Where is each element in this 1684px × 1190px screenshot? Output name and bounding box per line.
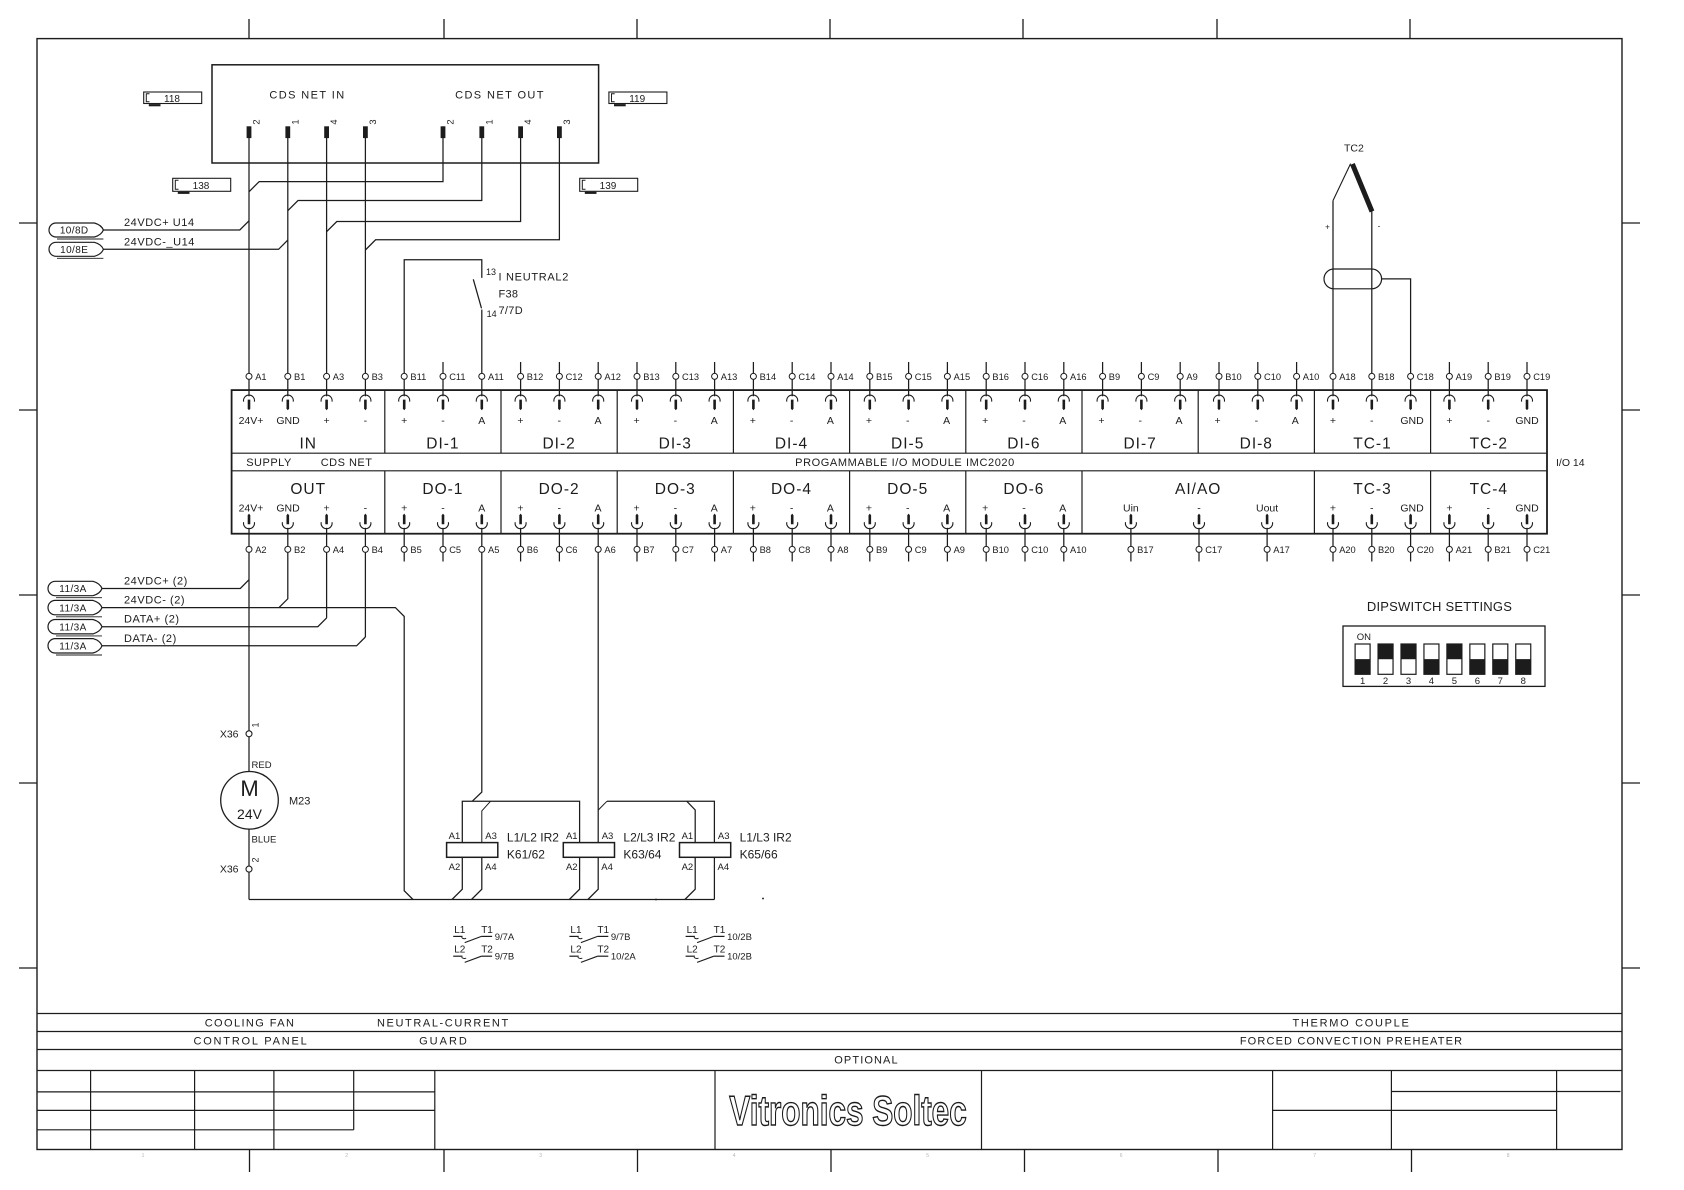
wire A2 to X36-1: [248, 553, 250, 731]
svg-text:+: +: [517, 503, 523, 515]
svg-text:X36: X36: [220, 729, 239, 741]
border tick right 2: [1622, 409, 1640, 411]
module pin C19 (top): [1522, 395, 1533, 410]
contact L2-T2 (10/2B) group 3: [686, 945, 752, 963]
svg-text:2: 2: [1383, 676, 1388, 687]
terminal B3 (top): [362, 372, 383, 396]
module pin C11 (top): [438, 395, 449, 410]
module pin A14 (top): [826, 395, 837, 410]
module pin A21 (bottom): [1444, 514, 1455, 529]
terminal B9 (top): [1100, 362, 1121, 396]
svg-text:GND: GND: [276, 415, 300, 427]
label BLUE: [252, 835, 277, 846]
terminal C15 (top): [906, 362, 932, 396]
module IMC2020 outline: [232, 390, 1547, 534]
svg-text:C9: C9: [915, 545, 927, 555]
terminal B17 (bottom): [1128, 528, 1154, 562]
terminal B21 (bottom): [1485, 528, 1511, 562]
svg-text:A4: A4: [601, 862, 613, 873]
terminal B14 (top): [750, 362, 776, 396]
terminal C17 (bottom): [1196, 528, 1222, 562]
section title DI-8: [1240, 436, 1273, 453]
module pin C14 (top): [787, 395, 798, 410]
svg-text:-: -: [674, 415, 678, 427]
svg-text:B16: B16: [992, 372, 1009, 382]
svg-text:L2: L2: [687, 945, 699, 956]
title block top line: [37, 1070, 1622, 1072]
svg-text:B2: B2: [294, 545, 305, 555]
band label PROGAMMABLE I/O MODULE IMC2020: [795, 457, 1015, 469]
terminal C14 (top): [789, 362, 815, 396]
svg-text:DO-1: DO-1: [422, 481, 463, 498]
svg-text:A2: A2: [566, 862, 578, 873]
svg-text:4: 4: [1429, 676, 1434, 687]
wire CDS IN pin 4 to A3: [326, 138, 328, 374]
svg-text:F38: F38: [499, 289, 519, 301]
svg-text:RED: RED: [252, 760, 272, 771]
svg-text:A: A: [594, 503, 601, 515]
svg-text:B5: B5: [410, 545, 421, 555]
border tick right 4: [1622, 782, 1640, 784]
terminal A10 (top): [1294, 362, 1320, 396]
svg-text:A: A: [594, 415, 601, 427]
svg-text:L1: L1: [687, 925, 699, 936]
pin label 13: [486, 267, 496, 277]
label CDS NET OUT: [455, 90, 545, 102]
svg-text:+: +: [866, 415, 872, 427]
terminal B18 (top): [1369, 372, 1395, 396]
svg-text:B9: B9: [1109, 372, 1120, 382]
svg-text:CDS NET IN: CDS NET IN: [269, 90, 345, 102]
module pin B1 (top): [282, 395, 293, 410]
svg-text:NEUTRAL-CURRENT: NEUTRAL-CURRENT: [377, 1018, 510, 1030]
label GUARD: [419, 1036, 469, 1048]
thermocouple TC2 tip thin: [1333, 164, 1351, 201]
svg-text:3: 3: [1406, 676, 1411, 687]
wire CDS OUT pin 4 daisy-chain: [327, 138, 521, 232]
svg-text:+: +: [1325, 223, 1330, 232]
module pin C13 (top): [670, 395, 681, 410]
svg-text:C5: C5: [449, 545, 461, 555]
module pin B7 (bottom): [632, 514, 643, 529]
source reference 11/3A (24VDC+ (2)): [48, 581, 102, 597]
TC2 polarity -: [1378, 222, 1381, 231]
svg-text:B11: B11: [410, 372, 426, 382]
svg-text:-: -: [1370, 415, 1374, 427]
label FORCED CONVECTION PREHEATER: [1240, 1036, 1463, 1048]
svg-text:C6: C6: [566, 545, 578, 555]
svg-text:A14: A14: [837, 372, 854, 382]
source reference 11/3A (DATA- (2)): [48, 639, 102, 655]
wire CDS OUT pin 3 daisy-chain: [365, 138, 559, 250]
terminal B19 (top): [1485, 362, 1511, 396]
border tick bottom 7: [1411, 1150, 1413, 1173]
wire A4 to DATA+: [326, 553, 328, 618]
svg-text:+: +: [1330, 503, 1336, 515]
svg-text:+: +: [1446, 503, 1452, 515]
svg-text:+: +: [1215, 415, 1221, 427]
svg-text:C13: C13: [682, 372, 699, 382]
svg-text:L1/L3 IR2: L1/L3 IR2: [740, 831, 792, 845]
module pin A9 (top): [1175, 395, 1186, 410]
border tick right 5: [1622, 967, 1640, 969]
wire K63 to K65 chain: [607, 801, 714, 842]
module pin C9 (top): [1136, 395, 1147, 410]
band line 3: [37, 1049, 1622, 1051]
module pin C10 (top): [1252, 395, 1263, 410]
band label SUPPLY: [246, 457, 292, 469]
module pin A13 (top): [709, 395, 720, 410]
terminal B6 (bottom): [518, 528, 539, 562]
module pin A16 (top): [1058, 395, 1069, 410]
svg-text:I NEUTRAL2: I NEUTRAL2: [499, 272, 570, 284]
svg-text:10/8E: 10/8E: [60, 245, 88, 256]
module pin B19 (top): [1483, 395, 1494, 410]
terminal B7 (bottom): [634, 528, 655, 562]
svg-text:IN: IN: [299, 436, 317, 453]
svg-text:A1: A1: [682, 831, 694, 842]
svg-text:-: -: [790, 503, 794, 515]
wire motor to X36-2: [248, 829, 250, 866]
band line 2: [37, 1031, 1622, 1033]
module pin B14 (top): [748, 395, 759, 410]
terminal X36 pin1: [220, 722, 261, 740]
terminal B16 (top): [983, 362, 1009, 396]
dipswitch 3 ON: [1401, 644, 1416, 687]
terminal A9 (top): [1177, 362, 1198, 396]
svg-text:K61/62: K61/62: [507, 848, 545, 862]
svg-text:+: +: [866, 503, 872, 515]
module pin B3 (top): [360, 395, 371, 410]
source reference 10/8E: [49, 242, 103, 258]
svg-text:PROGAMMABLE I/O MODULE IMC2020: PROGAMMABLE I/O MODULE IMC2020: [795, 457, 1015, 469]
svg-text:4: 4: [733, 1153, 736, 1159]
label NEUTRAL-CURRENT: [377, 1018, 510, 1030]
svg-text:A20: A20: [1339, 545, 1356, 555]
border tick right 1: [1622, 222, 1640, 224]
terminal C10 (top): [1255, 362, 1281, 396]
svg-text:A: A: [1292, 415, 1299, 427]
section title DO-3: [655, 481, 696, 498]
wire 24VDC+ (2): [102, 580, 249, 589]
module pin A15 (top): [942, 395, 953, 410]
module pin C18 (top): [1405, 395, 1416, 410]
svg-text:C17: C17: [1205, 545, 1222, 555]
svg-text:OUT: OUT: [290, 481, 326, 498]
svg-text:Uin: Uin: [1123, 503, 1139, 515]
svg-text:M23: M23: [289, 796, 310, 808]
svg-text:A9: A9: [954, 545, 965, 555]
terminal A4 (bottom): [324, 528, 345, 555]
cable marker 118: [144, 92, 202, 105]
CDS NET OUT pin 2: [441, 119, 456, 137]
svg-text:B21: B21: [1494, 545, 1511, 555]
svg-text:C10: C10: [1264, 372, 1281, 382]
section title DI-1: [426, 436, 459, 453]
module divider top 9: [1313, 390, 1315, 453]
label CONTROL PANEL: [193, 1036, 308, 1048]
column number 2: [345, 1153, 348, 1159]
label COOLING FAN: [205, 1018, 296, 1030]
svg-text:B7: B7: [643, 545, 654, 555]
svg-text:FORCED CONVECTION PREHEATER: FORCED CONVECTION PREHEATER: [1240, 1036, 1463, 1048]
terminal B13 (top): [634, 362, 660, 396]
module pin C5 (bottom): [438, 514, 449, 529]
terminal B11 (top): [401, 372, 426, 396]
column number 4: [733, 1153, 736, 1159]
svg-text:13: 13: [486, 267, 496, 277]
wire B4 to DATA-: [364, 553, 366, 637]
module pin A1 (top): [244, 395, 255, 410]
module pin B10 (bottom): [981, 514, 992, 529]
svg-text:GND: GND: [1515, 415, 1539, 427]
source reference 11/3A (DATA+ (2)): [48, 620, 102, 636]
svg-text:DI-7: DI-7: [1123, 436, 1156, 453]
label M23: [289, 796, 310, 808]
terminal A19 (top): [1446, 362, 1472, 396]
svg-text:-: -: [674, 503, 678, 515]
terminal C10 (bottom): [1022, 528, 1048, 562]
label DATA+ (2): [124, 614, 180, 626]
svg-text:L2: L2: [454, 945, 466, 956]
band label CDS NET: [321, 457, 373, 469]
svg-text:1: 1: [142, 1153, 145, 1159]
section title TC-2: [1470, 436, 1508, 453]
svg-text:B20: B20: [1378, 545, 1395, 555]
svg-text:DI-4: DI-4: [775, 436, 808, 453]
svg-text:A10: A10: [1070, 545, 1087, 555]
terminal A12 (top): [595, 362, 621, 396]
terminal A16 (top): [1061, 362, 1087, 396]
border tick top 4: [829, 19, 831, 39]
svg-text:24V: 24V: [237, 806, 263, 822]
svg-text:L1/L2 IR2: L1/L2 IR2: [507, 831, 559, 845]
svg-text:+: +: [324, 415, 330, 427]
terminal B1 (top): [285, 372, 306, 396]
module divider top 10: [1430, 390, 1432, 453]
svg-text:9/7B: 9/7B: [611, 932, 631, 943]
svg-text:A7: A7: [721, 545, 732, 555]
wire TC2 shield to C18: [1382, 279, 1411, 373]
contact L2-T2 (10/2A) group 2: [569, 945, 636, 963]
module divider bottom 9: [1430, 471, 1432, 534]
module pin A5 (bottom): [476, 514, 487, 529]
border tick bottom 4: [830, 1150, 832, 1173]
label RED: [252, 760, 272, 771]
svg-text:11/3A: 11/3A: [59, 603, 86, 614]
svg-text:L1: L1: [570, 925, 582, 936]
svg-text:3: 3: [368, 119, 378, 124]
svg-text:B14: B14: [760, 372, 777, 382]
svg-text:TC-2: TC-2: [1470, 436, 1508, 453]
dipswitch box: [1343, 626, 1545, 686]
CDS NET OUT pin 1: [480, 119, 495, 137]
svg-text:A2: A2: [449, 862, 461, 873]
svg-text:B8: B8: [760, 545, 771, 555]
svg-text:CONTROL PANEL: CONTROL PANEL: [193, 1036, 308, 1048]
svg-text:A4: A4: [333, 545, 344, 555]
K61 terminal labels: [449, 831, 497, 873]
module divider bottom 1: [384, 471, 386, 534]
svg-text:GND: GND: [1515, 503, 1539, 515]
svg-text:A16: A16: [1070, 372, 1087, 382]
label L1/L3 IR2: [740, 831, 792, 845]
svg-text:A2: A2: [682, 862, 694, 873]
svg-text:+: +: [634, 415, 640, 427]
wire 24VDC- (2): [102, 608, 413, 900]
svg-text:B1: B1: [294, 372, 305, 382]
svg-text:THERMO COUPLE: THERMO COUPLE: [1292, 1018, 1410, 1030]
terminal A11 (top): [479, 372, 504, 396]
svg-text:11/3A: 11/3A: [59, 584, 86, 595]
svg-text:B4: B4: [372, 545, 383, 555]
module pin B9 (bottom): [864, 514, 875, 529]
terminal B8 (bottom): [750, 528, 771, 562]
svg-text:6: 6: [1475, 676, 1480, 687]
module pin B17 (bottom): [1125, 514, 1136, 529]
module pin A7 (bottom): [709, 514, 720, 529]
contactor K65/66: [680, 843, 731, 858]
module pin B6 (bottom): [515, 514, 526, 529]
column number 1: [142, 1153, 145, 1159]
section title DI-4: [775, 436, 808, 453]
module divider bottom 2: [500, 471, 502, 534]
svg-text:-: -: [1138, 415, 1142, 427]
svg-text:A15: A15: [954, 372, 971, 382]
svg-text:24VDC+ U14: 24VDC+ U14: [124, 217, 195, 229]
svg-text:-: -: [906, 503, 910, 515]
switch F38 blade: [473, 279, 481, 308]
module pin B16 (top): [981, 395, 992, 410]
svg-text:+: +: [324, 503, 330, 515]
module pin B2 (bottom): [282, 514, 293, 529]
svg-text:A12: A12: [604, 372, 621, 382]
svg-text:T2: T2: [714, 945, 726, 956]
terminal C19 (top): [1524, 362, 1550, 396]
svg-text:A9: A9: [1186, 372, 1197, 382]
section title DI-2: [542, 436, 575, 453]
contact L1-T1 (9/7A) group 1: [453, 925, 515, 943]
module band line upper: [232, 452, 1547, 454]
svg-text:1: 1: [1360, 676, 1365, 687]
svg-text:B19: B19: [1494, 372, 1511, 382]
svg-text:+: +: [750, 415, 756, 427]
module pin B21 (bottom): [1483, 514, 1494, 529]
terminal B4 (bottom): [362, 528, 383, 555]
svg-text:DI-8: DI-8: [1240, 436, 1273, 453]
svg-text:DATA+ (2): DATA+ (2): [124, 614, 180, 626]
module pin A18 (top): [1328, 395, 1339, 410]
svg-text:Uout: Uout: [1256, 503, 1278, 515]
module divider bottom 7: [1081, 471, 1083, 534]
module divider top 3: [616, 390, 618, 453]
border tick top 5: [1022, 19, 1024, 39]
svg-text:3: 3: [539, 1153, 542, 1159]
svg-text:10/2B: 10/2B: [727, 932, 752, 943]
svg-text:-: -: [441, 415, 445, 427]
contact L2-T2 (9/7B) group 1: [453, 945, 514, 963]
svg-text:DO-5: DO-5: [887, 481, 928, 498]
svg-text:DO-6: DO-6: [1003, 481, 1044, 498]
module pin B5 (bottom): [399, 514, 410, 529]
column number 8: [1507, 1153, 1510, 1159]
module divider top 6: [965, 390, 967, 453]
wire K61 A4 to bus: [472, 857, 482, 899]
svg-text:C18: C18: [1417, 372, 1434, 382]
module pin B20 (bottom): [1366, 514, 1377, 529]
terminal A5 (bottom): [479, 528, 500, 555]
svg-text:5: 5: [1452, 676, 1457, 687]
CDS NET IN pin 2: [247, 119, 262, 137]
svg-text:A3: A3: [718, 831, 730, 842]
section title DI-3: [659, 436, 692, 453]
svg-text:GND: GND: [276, 503, 300, 515]
border tick bottom 6: [1217, 1150, 1219, 1173]
module pin A2 (bottom): [244, 514, 255, 529]
svg-text:2: 2: [345, 1153, 348, 1159]
border tick left 5: [19, 967, 37, 969]
border tick top 6: [1216, 19, 1218, 39]
svg-text:DO-3: DO-3: [655, 481, 696, 498]
svg-text:TC-4: TC-4: [1470, 481, 1508, 498]
svg-text:CDS NET OUT: CDS NET OUT: [455, 90, 545, 102]
module pin C20 (bottom): [1405, 514, 1416, 529]
svg-text:DI-5: DI-5: [891, 436, 924, 453]
svg-text:A: A: [1175, 415, 1182, 427]
svg-text:B13: B13: [643, 372, 660, 382]
border tick left 4: [19, 782, 37, 784]
svg-text:A: A: [478, 503, 485, 515]
svg-text:10/2A: 10/2A: [611, 952, 636, 963]
svg-text:GND: GND: [1400, 415, 1424, 427]
svg-text:7/7D: 7/7D: [499, 305, 523, 317]
section title OUT: [290, 481, 326, 498]
module pin C10 (bottom): [1020, 514, 1031, 529]
module pin A10 (bottom): [1058, 514, 1069, 529]
label THERMO COUPLE: [1292, 1018, 1410, 1030]
label 24VDC+ (2): [124, 576, 188, 588]
svg-text:T2: T2: [481, 945, 493, 956]
terminal A2 (bottom): [246, 528, 267, 555]
module pin A6 (bottom): [593, 514, 604, 529]
svg-text:TC-3: TC-3: [1353, 481, 1391, 498]
svg-text:A11: A11: [488, 372, 504, 382]
module pin B15 (top): [864, 395, 875, 410]
module pin A12 (top): [593, 395, 604, 410]
svg-text:-: -: [1486, 415, 1490, 427]
dipswitch 1 OFF: [1355, 644, 1370, 687]
terminal A20 (bottom): [1330, 528, 1356, 562]
module divider top 8: [1197, 390, 1199, 453]
terminal C8 (bottom): [789, 528, 810, 562]
CDS NET IN pin 3: [363, 119, 378, 137]
module pin A3 (top): [321, 395, 332, 410]
cable marker 139: [580, 178, 638, 193]
module pin B10 (top): [1214, 395, 1225, 410]
svg-text:B10: B10: [1225, 372, 1242, 382]
svg-text:A4: A4: [485, 862, 497, 873]
K65 terminal labels: [682, 831, 730, 873]
svg-text:C9: C9: [1148, 372, 1160, 382]
terminal C12 (top): [556, 362, 582, 396]
module divider bottom 3: [616, 471, 618, 534]
terminal B5 (bottom): [401, 528, 422, 562]
svg-text:8: 8: [1521, 676, 1526, 687]
border tick bottom 1: [249, 1150, 251, 1173]
svg-text:B3: B3: [372, 372, 383, 382]
svg-text:A3: A3: [602, 831, 614, 842]
svg-text:GUARD: GUARD: [419, 1036, 469, 1048]
